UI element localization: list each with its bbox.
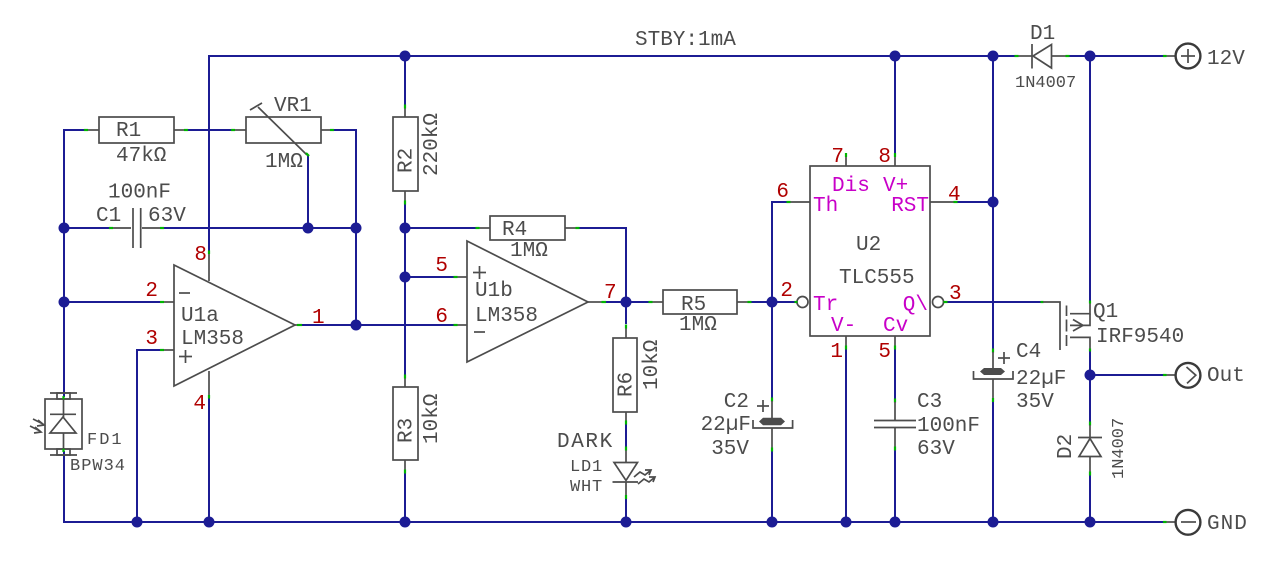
junction R5 right / Tr / C2: [767, 297, 778, 308]
terminal Out: [1163, 363, 1245, 388]
op-amp U1a: [145, 244, 324, 416]
MOSFET Q1 IRF9540: [1041, 301, 1185, 352]
wire D1 anode column to RST and C4: [992, 56, 994, 349]
svg-text:C3: C3: [917, 391, 942, 414]
junction pin3 at GND rail: [132, 517, 143, 528]
svg-text:R1: R1: [116, 120, 141, 143]
junction C4 at GND rail: [988, 517, 999, 528]
svg-text:R6: R6: [616, 372, 639, 397]
wire U1a output to U1b pin6: [302, 324, 454, 326]
junction U1a output node: [351, 320, 362, 331]
resistor R6 10k: [613, 325, 664, 425]
svg-text:C2: C2: [724, 391, 749, 414]
svg-text:D1: D1: [1030, 23, 1055, 46]
wire U1a pin2 branch: [64, 301, 160, 303]
svg-text:D2: D2: [1055, 434, 1078, 459]
svg-text:STBY:1mA: STBY:1mA: [635, 29, 736, 52]
svg-text:1MΩ: 1MΩ: [510, 240, 548, 263]
svg-text:5: 5: [435, 255, 448, 278]
svg-text:Th: Th: [813, 195, 838, 218]
wire +12V top rail: [209, 56, 1015, 251]
wire C1 right to VR1 right column: [163, 227, 356, 229]
wire R6 bottom to LED: [625, 424, 627, 447]
svg-text:6: 6: [435, 306, 448, 329]
svg-text:DARK: DARK: [557, 431, 614, 454]
potentiometer VR1 1M: [231, 95, 334, 174]
LED LD1 white: [557, 431, 655, 499]
light arrows into FD1: [33, 419, 43, 424]
svg-text:10kΩ: 10kΩ: [641, 340, 664, 390]
svg-text:GND: GND: [1207, 513, 1248, 536]
svg-text:63V: 63V: [148, 205, 186, 228]
svg-text:3: 3: [145, 328, 158, 351]
wire R4 right down to U1b output: [579, 228, 626, 302]
junction VR1 wiper at C1 wire: [303, 223, 314, 234]
junction D1 cathode at rail: [1085, 51, 1096, 62]
svg-text:6: 6: [776, 181, 789, 204]
pin 1 V-: [845, 336, 847, 346]
svg-text:100nF: 100nF: [917, 415, 980, 438]
wire D1 to 12V terminal: [1069, 55, 1163, 57]
wire output node down to R6: [625, 302, 627, 324]
wire VR1 wiper down: [307, 155, 309, 228]
wire Out node to Out terminal: [1090, 374, 1163, 376]
svg-text:2: 2: [145, 280, 158, 303]
svg-text:WHT: WHT: [570, 478, 603, 497]
timer U2 TLC555: [776, 146, 961, 364]
junction U1a pin2 column: [59, 297, 70, 308]
drain electrode: [1070, 337, 1090, 349]
pin 6 Th: [790, 201, 810, 203]
pin 3 Q with inversion bubble: [933, 297, 944, 308]
junction U1b pin5 branch: [400, 272, 411, 283]
svg-text:4: 4: [948, 184, 961, 207]
junction U1b output node: [621, 297, 632, 308]
pin 5 Cv: [894, 336, 896, 346]
pin 7 Dis stub: [845, 156, 847, 166]
resistor R3 10k: [393, 375, 444, 474]
wire 555 pin5 to C3: [894, 349, 896, 399]
svg-text:R4: R4: [502, 219, 527, 242]
svg-text:8: 8: [194, 244, 207, 267]
resistor R5 1M: [649, 290, 752, 337]
svg-text:4: 4: [193, 393, 206, 416]
terminal GND: [1163, 510, 1248, 536]
wire Th/Tr/C2 column: [772, 202, 787, 398]
svg-text:FD1: FD1: [87, 431, 124, 450]
wire C1 left: [64, 227, 110, 229]
svg-text:VR1: VR1: [274, 95, 312, 118]
svg-text:LM358: LM358: [475, 305, 538, 328]
junction R2 bottom / R4 left: [400, 223, 411, 234]
svg-text:LM358: LM358: [181, 328, 244, 351]
svg-text:1MΩ: 1MΩ: [679, 314, 717, 337]
svg-text:C1: C1: [96, 205, 121, 228]
pin 4 RST: [930, 201, 954, 203]
wire D2 anode to GND rail: [1089, 475, 1091, 522]
terminal +12V: [1163, 44, 1245, 71]
svg-text:Out: Out: [1207, 365, 1245, 388]
wire 555 Q output to Q1 gate: [947, 301, 1041, 303]
wire V+ pin8 feed: [894, 56, 896, 153]
wire LED cathode to GND rail: [625, 499, 627, 523]
svg-text:12V: 12V: [1207, 48, 1245, 71]
svg-text:220kΩ: 220kΩ: [421, 113, 444, 176]
svg-text:1N4007: 1N4007: [1110, 418, 1129, 479]
junction D2 at GND rail: [1085, 517, 1096, 528]
svg-text:1: 1: [312, 307, 325, 330]
svg-text:3: 3: [949, 283, 962, 306]
svg-text:R3: R3: [396, 418, 419, 443]
svg-text:V-: V-: [831, 315, 856, 338]
wire D1 cathode column to Q1 source: [1089, 56, 1091, 301]
junction RST at +12V column: [988, 197, 999, 208]
wire 555 pin1 to GND rail: [845, 349, 847, 522]
wire R3 bottom to GND rail: [404, 473, 406, 522]
diode D2 1N4007: [1055, 418, 1129, 479]
pin 8 V+: [894, 156, 896, 166]
junction LED at GND rail: [621, 517, 632, 528]
wire R4 left branch: [405, 227, 476, 229]
junction C2 at GND rail: [767, 517, 778, 528]
svg-text:RST: RST: [891, 195, 929, 218]
channel dashes: [1066, 306, 1068, 317]
capacitor C1 100nF: [96, 182, 186, 249]
svg-text:R2: R2: [396, 148, 419, 173]
svg-text:C4: C4: [1016, 341, 1041, 364]
capacitor C3 100nF: [874, 391, 980, 461]
svg-text:TLC555: TLC555: [839, 267, 915, 290]
wire U1a pin3 down to GND rail: [137, 350, 160, 522]
svg-text:LD1: LD1: [570, 458, 603, 477]
source electrode: [1070, 303, 1090, 314]
wire C3 bottom to GND rail: [894, 450, 896, 522]
wire Q1 drain to Out node: [1089, 351, 1091, 375]
junction V+ pin8 at rail: [890, 51, 901, 62]
LED light arrows: [634, 470, 651, 477]
resistor R4 1M: [476, 216, 580, 263]
wire output node to R5: [626, 301, 649, 303]
wire R2 bottom to R4/pin5/R3 column: [404, 204, 406, 375]
svg-text:U1a: U1a: [181, 305, 219, 328]
svg-text:22µF: 22µF: [1016, 368, 1066, 391]
svg-text:100nF: 100nF: [108, 182, 171, 205]
wire U1b pin7 output to node: [606, 301, 626, 303]
junction R3 at GND rail: [400, 517, 411, 528]
wire GND bottom rail: [64, 451, 1165, 522]
resistor R1 47k: [84, 117, 188, 168]
op-amp U1b: [435, 241, 616, 362]
capacitor C2 22uF electrolytic: [701, 391, 793, 461]
svg-text:U2: U2: [856, 234, 881, 257]
svg-text:Q1: Q1: [1093, 301, 1118, 324]
resistor R2 220k: [393, 105, 444, 205]
svg-text:1N4007: 1N4007: [1015, 74, 1076, 93]
svg-text:1: 1: [830, 341, 843, 364]
photodiode FD1 BPW34: [30, 393, 126, 476]
junction VR1 right column at C1 wire: [351, 223, 362, 234]
svg-text:63V: 63V: [917, 438, 955, 461]
svg-text:35V: 35V: [1016, 391, 1054, 414]
pin 2 Tr with inversion bubble: [797, 297, 808, 308]
junction Out node: [1085, 370, 1096, 381]
capacitor C4 22uF electrolytic: [974, 341, 1067, 414]
junction D1 anode at rail: [988, 51, 999, 62]
svg-text:Q\: Q\: [903, 294, 928, 317]
svg-text:7: 7: [831, 146, 844, 169]
junction 555 pin1 at GND rail: [841, 517, 852, 528]
svg-text:10kΩ: 10kΩ: [421, 394, 444, 444]
junction C1 left column: [59, 223, 70, 234]
wire RST pin4 to +12V column: [957, 201, 993, 203]
wire Out node to D2 cathode: [1089, 375, 1091, 422]
junction pin4 at GND rail: [204, 517, 215, 528]
svg-text:8: 8: [878, 146, 891, 169]
wire R5 right to 555 Tr pin: [751, 301, 795, 303]
svg-text:U1b: U1b: [475, 280, 513, 303]
svg-text:2: 2: [780, 280, 793, 303]
svg-text:5: 5: [878, 341, 891, 364]
svg-text:47kΩ: 47kΩ: [116, 145, 166, 168]
svg-text:35V: 35V: [711, 438, 749, 461]
diode D1 1N4007: [1015, 23, 1077, 93]
svg-text:7: 7: [604, 282, 617, 305]
svg-text:1MΩ: 1MΩ: [265, 151, 303, 174]
wire left column R1/C1/U1a pin2/FD1: [64, 130, 85, 397]
wire C4 bottom to GND rail: [992, 401, 994, 522]
junction R2 top at rail: [400, 51, 411, 62]
wire VR1 right down to U1a output node: [333, 130, 356, 325]
svg-text:IRF9540: IRF9540: [1096, 326, 1184, 349]
svg-text:BPW34: BPW34: [70, 457, 126, 476]
wire R1 to VR1: [187, 129, 232, 131]
junction C3 at GND rail: [890, 517, 901, 528]
body electrode with arrow: [1070, 314, 1090, 326]
svg-text:22µF: 22µF: [701, 414, 751, 437]
svg-text:Tr: Tr: [813, 294, 838, 317]
wire R2 top feed: [404, 56, 406, 105]
wire U1a pin4 down to GND rail: [208, 398, 210, 522]
wire U1b pin5 branch: [405, 276, 454, 278]
svg-text:Cv: Cv: [883, 315, 908, 338]
wire C2 bottom to GND rail: [771, 451, 773, 522]
